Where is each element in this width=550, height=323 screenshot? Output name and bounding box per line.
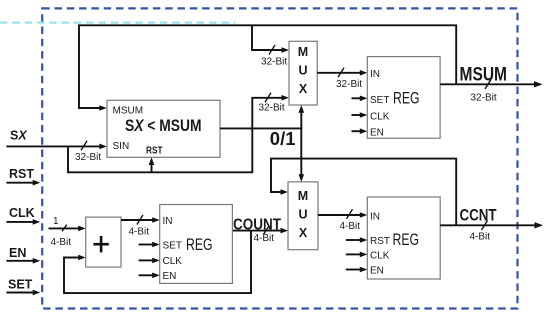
wire RST stub up into comparator (149, 157, 155, 172)
svg-text:IN: IN (370, 212, 380, 223)
svg-text:32-Bit: 32-Bit (471, 92, 497, 103)
wire CLK stub to REG3 (139, 258, 160, 264)
svg-text:0/1: 0/1 (270, 128, 296, 149)
mux U3 (288, 182, 318, 250)
wire CLK input (6, 219, 40, 225)
wire SET stub to REG3 (139, 242, 160, 248)
wire SET input (6, 290, 40, 296)
wire MSUM feedback (top loop) (79, 25, 456, 111)
wire MUX U3 output to REG2 IN (318, 209, 367, 219)
svg-text:EN: EN (9, 246, 26, 260)
svg-text:SET: SET (370, 95, 389, 106)
svg-text:32-Bit: 32-Bit (259, 103, 285, 114)
svg-text:M: M (298, 189, 308, 203)
svg-text:MSUM: MSUM (460, 65, 508, 86)
svg-text:X: X (299, 82, 308, 96)
wire MSUM output (440, 80, 542, 90)
svg-text:CCNT: CCNT (460, 206, 497, 225)
svg-text:4-Bit: 4-Bit (129, 227, 150, 238)
wire RST input (6, 180, 40, 186)
svg-text:EN: EN (370, 127, 384, 138)
svg-text:SET: SET (163, 241, 182, 252)
svg-text:SX: SX (10, 129, 27, 143)
svg-text:1: 1 (53, 216, 59, 227)
wire MSUM drop to MUX U2 input A (252, 25, 289, 54)
wire MUX U2 output to REG1 IN (317, 68, 367, 78)
wire CCNT output (440, 221, 543, 231)
register REG3 (160, 205, 233, 284)
svg-text:REG: REG (393, 230, 420, 249)
register REG2 (367, 197, 440, 279)
wire SX input (6, 141, 106, 151)
svg-text:32-Bit: 32-Bit (336, 79, 362, 90)
svg-text:4-Bit: 4-Bit (340, 221, 361, 232)
svg-text:SIN: SIN (113, 141, 130, 152)
mux U2 (289, 41, 317, 105)
register REG1 (367, 57, 440, 139)
wire COUNT to MUX U3 input B (232, 225, 288, 234)
wire EN stub to REG2 (346, 267, 368, 273)
wire COUNT feedback to adder (64, 231, 251, 294)
svg-text:COUNT: COUNT (233, 216, 281, 233)
wire SET stub to REG1 (352, 96, 368, 102)
wire SX branch to MUX U2 input B (68, 93, 289, 173)
svg-text:REG: REG (186, 235, 213, 254)
svg-text:4-Bit: 4-Bit (254, 233, 275, 244)
wire constant 1 to adder (49, 225, 86, 232)
wire EN input (6, 258, 40, 264)
svg-text:SX < MSUM: SX < MSUM (125, 116, 202, 135)
wire select down into MUX U3 (299, 128, 305, 182)
svg-text:SET: SET (8, 278, 33, 292)
svg-text:RST: RST (370, 236, 390, 247)
svg-text:REG: REG (393, 89, 420, 108)
comparator U1 (SX < MSUM) (107, 100, 220, 157)
svg-text:U: U (298, 64, 307, 78)
adder U4 (86, 217, 121, 267)
wire CCNT feedback to MUX U3 input A (271, 159, 456, 226)
svg-text:CLK: CLK (163, 256, 183, 267)
svg-text:32-Bit: 32-Bit (75, 152, 101, 163)
svg-text:IN: IN (370, 69, 380, 80)
svg-text:M: M (298, 45, 308, 59)
svg-text:U: U (298, 208, 307, 222)
wire comparator output 0/1 (220, 127, 302, 129)
svg-text:CLK: CLK (370, 251, 390, 262)
wire adder output to REG3 IN (121, 215, 160, 225)
svg-text:4-Bit: 4-Bit (51, 237, 72, 248)
svg-text:X: X (299, 226, 308, 240)
wire select up into MUX U2 (299, 105, 305, 128)
svg-text:CLK: CLK (9, 206, 35, 220)
wire EN stub to REG1 (352, 128, 368, 134)
svg-text:EN: EN (163, 271, 177, 282)
svg-text:IN: IN (163, 216, 173, 227)
svg-text:RST: RST (146, 145, 163, 156)
wire CLK stub to REG1 (352, 112, 368, 118)
svg-text:CLK: CLK (370, 112, 390, 123)
svg-text:32-Bit: 32-Bit (261, 56, 287, 67)
wire EN stub to REG3 (139, 273, 160, 279)
wire CLK stub to REG2 (346, 252, 368, 258)
svg-text:4-Bit: 4-Bit (470, 231, 491, 242)
svg-text:MSUM: MSUM (113, 106, 144, 117)
wire RST stub to REG2 (346, 237, 368, 243)
svg-text:EN: EN (370, 266, 384, 277)
svg-text:RST: RST (9, 167, 34, 181)
